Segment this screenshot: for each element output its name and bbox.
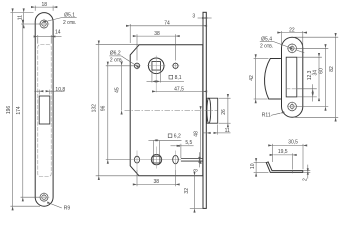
dimension square 8,1 <box>147 70 185 82</box>
svg-text:30,5: 30,5 <box>288 139 298 145</box>
dimension 30,5 <box>272 139 303 169</box>
dimension 132 <box>92 45 139 176</box>
dimension 26 latch <box>219 98 231 123</box>
label D5,1 2 holes <box>48 12 77 25</box>
svg-text:42: 42 <box>249 75 255 81</box>
bottom screw hole faceplate <box>39 192 50 202</box>
dimension 5,5 <box>171 140 194 158</box>
strike hidden line <box>286 88 297 90</box>
label R9 <box>51 204 70 212</box>
svg-text:11: 11 <box>17 15 23 20</box>
dimension 18 <box>35 2 53 11</box>
svg-text:8,1: 8,1 <box>175 75 182 81</box>
dimension 3 auxiliary bolt <box>194 152 200 171</box>
dimension 74 <box>130 21 203 43</box>
svg-text:74: 74 <box>164 21 170 27</box>
faceplate front view <box>35 13 53 207</box>
dimension 47,5 <box>156 86 203 92</box>
dimension 38 bottom <box>137 170 176 186</box>
svg-text:47,5: 47,5 <box>174 86 184 92</box>
dimension 82 <box>294 37 338 117</box>
follower hub and square 8,1 <box>147 56 165 93</box>
bottom square hole 6,2 <box>151 147 161 169</box>
svg-text:60: 60 <box>319 68 325 74</box>
strike plate front view <box>282 37 303 117</box>
dimension 196 <box>6 13 40 207</box>
svg-text:5,5: 5,5 <box>185 140 192 146</box>
svg-text:14: 14 <box>55 29 61 35</box>
svg-text:38: 38 <box>154 179 160 185</box>
dimension 12,3 <box>297 70 317 101</box>
auxiliary bolt plate lines <box>181 159 203 162</box>
dimension 96 <box>101 66 135 160</box>
svg-text:10: 10 <box>250 163 256 169</box>
svg-text:11: 11 <box>225 128 230 134</box>
svg-text:3: 3 <box>192 14 195 20</box>
svg-text:22: 22 <box>289 27 295 33</box>
svg-text:R11: R11 <box>262 113 271 119</box>
svg-text:3: 3 <box>194 169 200 172</box>
label D6,2 2 holes <box>109 51 135 65</box>
dimension square 6,2 <box>148 134 181 156</box>
svg-text:2 отв.: 2 отв. <box>260 43 273 49</box>
bottom-right oval hole <box>173 151 179 171</box>
svg-text:19,5: 19,5 <box>278 149 288 155</box>
label R11 <box>262 113 280 119</box>
dimension 11 latch <box>202 124 230 134</box>
dimension 10 <box>250 162 269 172</box>
svg-text:96: 96 <box>101 105 107 111</box>
strike box profile <box>266 162 303 173</box>
dimension 22 <box>282 27 303 46</box>
svg-text:196: 196 <box>6 106 12 115</box>
label D5,4 2 holes <box>260 36 305 53</box>
dimension 19,5 <box>274 149 293 169</box>
svg-text:2: 2 <box>303 178 309 181</box>
svg-text:10,8: 10,8 <box>55 87 65 93</box>
dimension 34 <box>297 57 322 97</box>
svg-text:6,2: 6,2 <box>174 134 181 140</box>
svg-text:132: 132 <box>92 104 98 113</box>
dimension 11 <box>17 13 40 24</box>
latch centerline <box>125 109 218 111</box>
dimension 174 <box>16 24 40 197</box>
latch bolt <box>207 98 218 123</box>
svg-text:174: 174 <box>16 106 22 115</box>
strike cutout <box>286 57 297 97</box>
svg-text:48: 48 <box>193 131 199 137</box>
strike top hole <box>287 43 297 53</box>
svg-text:2 отв.: 2 отв. <box>110 57 123 63</box>
svg-text:45: 45 <box>115 87 121 93</box>
top-right screw hole body <box>172 62 180 70</box>
dimension 2 <box>303 165 311 181</box>
dimension 38 top <box>137 31 176 61</box>
dimension 42 <box>249 59 268 100</box>
hidden lock-case outline behind faceplate <box>38 45 51 177</box>
dimension 45 <box>115 66 122 111</box>
latch window <box>39 96 50 124</box>
forend plate side view <box>203 12 206 208</box>
svg-text:38: 38 <box>154 31 160 37</box>
svg-text:82: 82 <box>329 66 335 72</box>
bottom-left oval hole <box>131 151 181 171</box>
strike tongue <box>265 59 281 100</box>
svg-text:R9: R9 <box>64 205 71 211</box>
top screw hole faceplate <box>39 19 50 29</box>
dimension 32 <box>184 176 203 209</box>
profile tick <box>292 170 294 174</box>
svg-text:26: 26 <box>221 109 227 115</box>
dimension 10,8 <box>34 87 65 95</box>
dimension 3 forend <box>192 14 211 20</box>
svg-text:18: 18 <box>42 2 48 8</box>
dimension 14 <box>38 29 62 43</box>
dimension 48 <box>193 110 200 159</box>
svg-text:2 отв.: 2 отв. <box>63 20 76 26</box>
strike bottom hole <box>287 101 297 111</box>
lock body side view <box>130 45 203 176</box>
svg-text:32: 32 <box>184 188 190 194</box>
dimension 60 <box>296 48 328 106</box>
top-left screw hole body <box>133 62 141 70</box>
